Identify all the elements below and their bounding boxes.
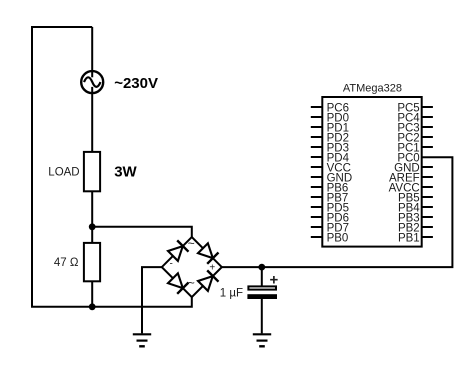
- svg-text:~230V: ~230V: [114, 75, 158, 92]
- right pin stubs: [422, 107, 433, 237]
- svg-text:+: +: [209, 263, 215, 274]
- resistor R1 47 ohm: [84, 243, 100, 281]
- wire main branch through source and resistors: [91, 27, 93, 307]
- svg-text:PB0: PB0: [327, 233, 349, 245]
- diode D2 top-right: [198, 243, 219, 263]
- svg-text:1 µF: 1 µF: [220, 288, 243, 300]
- svg-text:~: ~: [188, 236, 195, 250]
- node A junction dot: [89, 223, 96, 230]
- node B junction dot: [89, 303, 96, 310]
- IC U1 ATMega328 body: [322, 97, 421, 247]
- ground G1: [133, 334, 151, 346]
- capacitor C1 polarized: [248, 286, 276, 289]
- wire bridge left to ground: [142, 267, 162, 333]
- svg-text:+: +: [270, 272, 279, 289]
- wire node C to capacitor: [261, 267, 263, 286]
- diode D1 top-left: [168, 240, 189, 261]
- voltage source V1: [81, 71, 103, 93]
- resistor LOAD: [84, 152, 100, 191]
- svg-text:ATMega328: ATMega328: [343, 82, 402, 94]
- node C junction dot: [258, 264, 265, 271]
- diode D3 bottom-left: [168, 273, 189, 294]
- left pin stubs: [311, 107, 323, 237]
- right pin labels: [389, 103, 421, 245]
- wire capacitor to ground: [261, 299, 263, 333]
- svg-text:-: -: [170, 259, 173, 270]
- svg-text:3W: 3W: [114, 163, 137, 180]
- ground G2: [253, 334, 271, 346]
- svg-text:47 Ω: 47 Ω: [54, 257, 79, 269]
- diode bridge edges: [162, 237, 222, 297]
- wire bridge right to PC0: [222, 157, 453, 267]
- wire node A to bridge top: [92, 227, 192, 238]
- left pin labels: [327, 103, 353, 245]
- wire outer loop left: [32, 27, 192, 307]
- svg-text:PB1: PB1: [398, 233, 420, 245]
- diode D4 bottom-right: [198, 270, 219, 291]
- svg-text:LOAD: LOAD: [48, 167, 79, 179]
- svg-text:~: ~: [188, 276, 195, 290]
